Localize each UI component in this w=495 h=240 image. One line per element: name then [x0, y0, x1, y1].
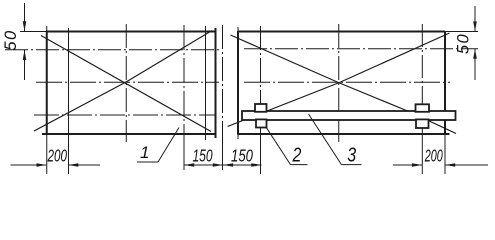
svg-text:2: 2 [292, 144, 302, 166]
svg-text:50: 50 [2, 29, 20, 50]
svg-text:1: 1 [140, 143, 149, 162]
svg-text:150: 150 [192, 146, 212, 166]
svg-text:50: 50 [454, 33, 472, 54]
svg-text:3: 3 [347, 144, 356, 166]
svg-text:200: 200 [424, 147, 443, 166]
svg-text:200: 200 [47, 146, 68, 166]
svg-text:150: 150 [231, 147, 253, 166]
